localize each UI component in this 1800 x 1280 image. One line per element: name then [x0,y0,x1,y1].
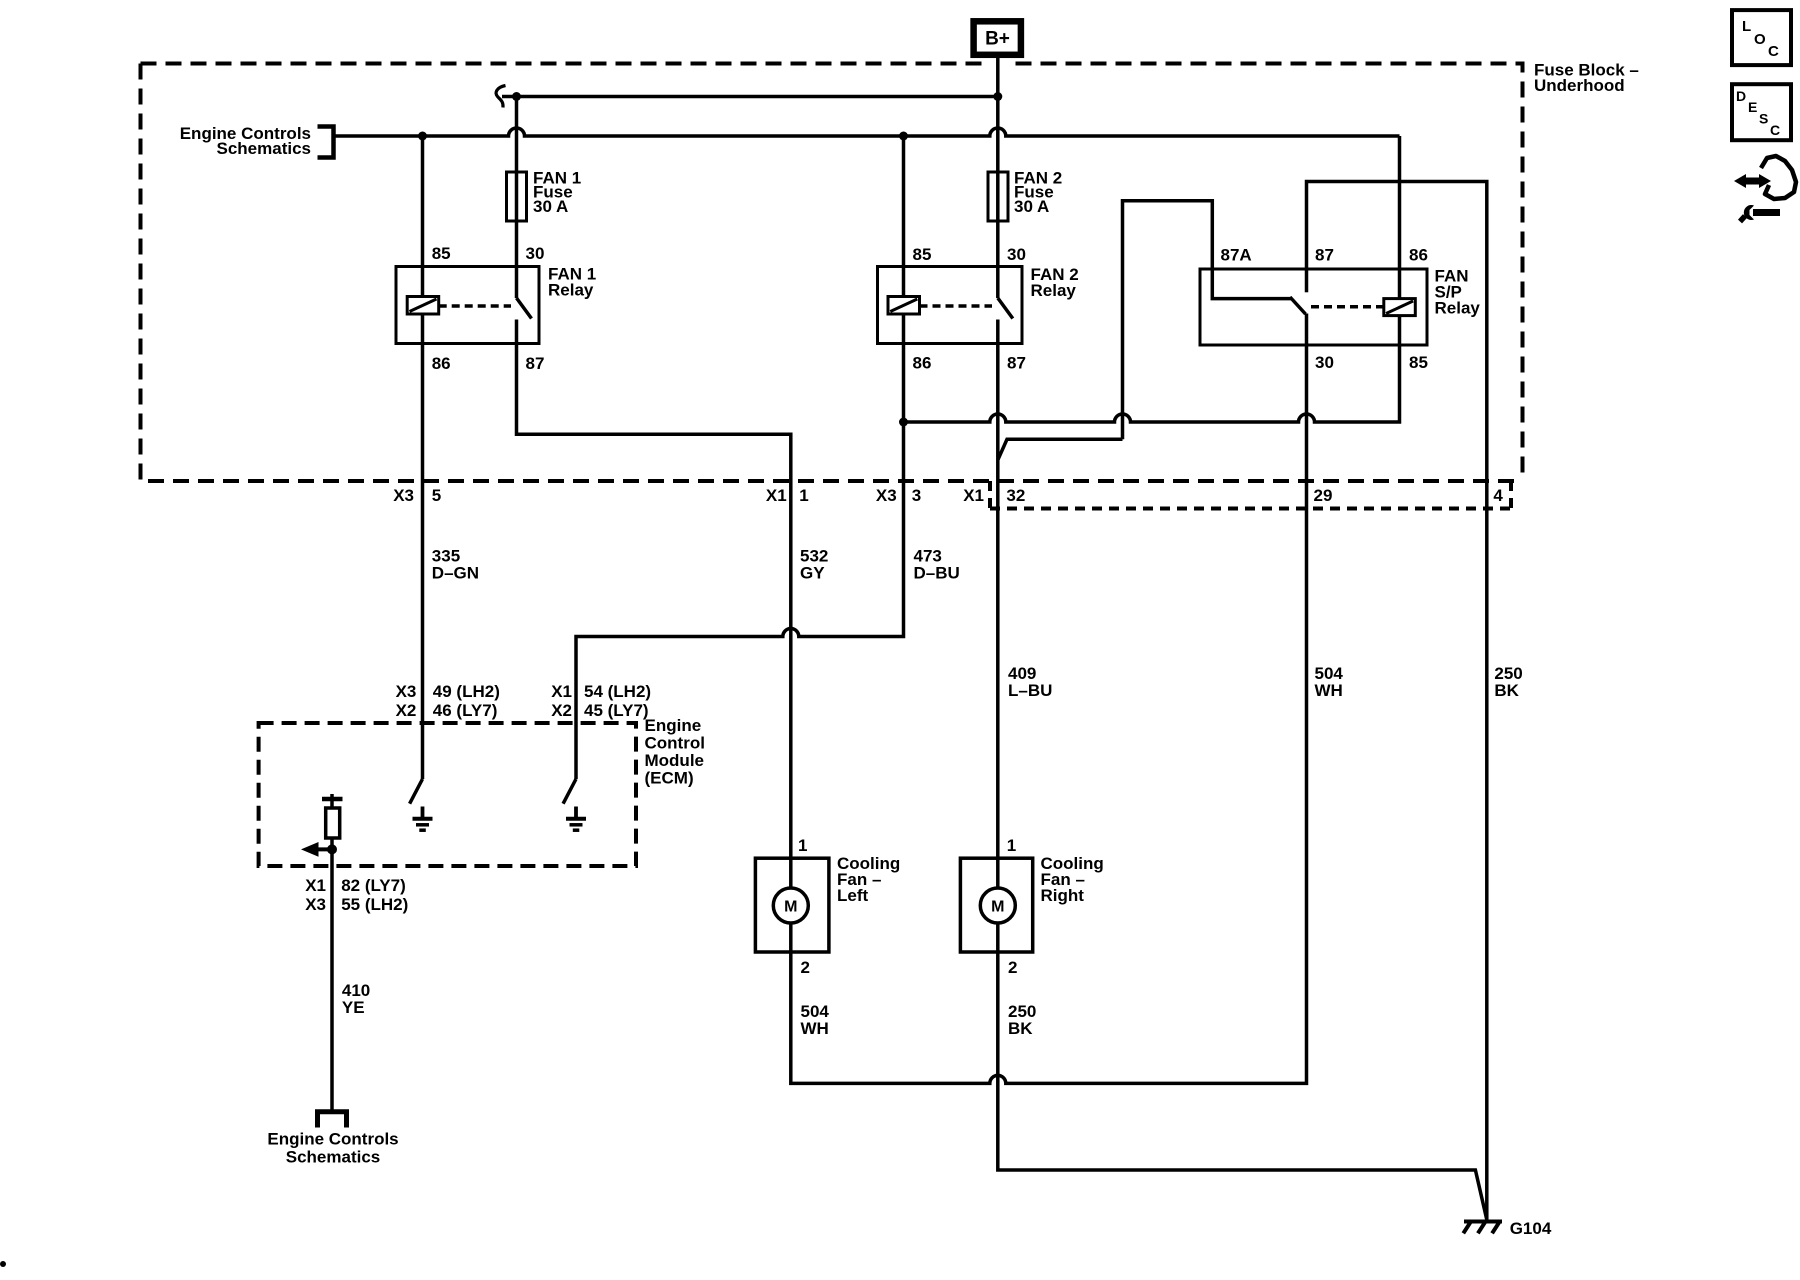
Engine Control Module dashed box [259,723,636,866]
svg-text:YE: YE [342,998,365,1017]
fuse FAN 2 30A [988,169,1062,222]
service icon: double arrow with bent arrow and wrench [1734,156,1796,222]
svg-text:Relay: Relay [548,281,594,300]
label 409 L-BU [1008,664,1052,700]
wire: FAN2 86 down (473 D-BU) to ECM link [576,344,904,780]
wire: FAN2 relay 85 drop [902,136,906,297]
svg-text:Left: Left [837,886,869,905]
label 504 WH (left fan) [801,1002,830,1038]
relay FAN 2 [878,245,1079,373]
label 335 D-GN [432,547,479,583]
svg-text:Module: Module [645,751,705,770]
label 532 GY [800,547,828,583]
svg-text:M: M [784,899,797,916]
svg-text:Engine Controls: Engine Controls [267,1130,398,1149]
svg-text:Relay: Relay [1031,281,1077,300]
relay FAN S/P [1200,246,1480,373]
wire: FAN1 relay 85 drop [421,136,425,297]
ECM switch 2 [563,779,576,804]
node: FAN2 relay 85 tap [899,132,908,141]
wire: fuse2 to FAN2 relay pin 30 [996,221,1000,267]
LOC icon [1732,10,1791,65]
svg-text:29: 29 [1314,486,1333,505]
svg-text:D–GN: D–GN [432,564,479,583]
svg-text:86: 86 [432,354,451,373]
label X3 3 [876,486,921,505]
svg-text:Schematics: Schematics [217,139,312,158]
label 473 D-BU [914,547,960,583]
relay FAN 1 [396,244,596,373]
svg-text:B+: B+ [985,29,1010,50]
signal arrow to Engine Controls Schematics [301,842,337,857]
label X3 5 [393,486,441,505]
wire: FAN1 87 to X1-1 [517,344,791,859]
svg-text:30 A: 30 A [1014,197,1049,216]
wire: right fan return 250 BK to ground [998,952,1487,1220]
svg-text:X3: X3 [396,682,417,701]
svg-text:M: M [991,899,1004,916]
svg-text:85: 85 [432,244,451,263]
ECM pin labels X1 54 / X2 45 [551,682,651,720]
svg-text:87: 87 [1315,246,1334,265]
svg-text:X1: X1 [305,876,326,895]
svg-text:49 (LH2): 49 (LH2) [433,682,500,701]
label X1 82 / X3 55 [305,876,408,914]
svg-text:82 (LY7): 82 (LY7) [341,876,406,895]
svg-text:X3: X3 [393,486,414,505]
label 504 WH [1315,664,1344,700]
node: junction B+ link / fuse 1 drop [512,92,521,101]
svg-text:30: 30 [526,244,545,263]
svg-text:D: D [1736,88,1746,104]
svg-text:C: C [1768,43,1779,60]
ECM internal sensing element [322,794,343,838]
wire: fuse1 drop from B+ link [515,97,519,173]
bracket (top left) [318,127,334,158]
svg-text:O: O [1754,31,1766,48]
X1 connector dashed band [990,481,1511,509]
label Fuse Block - Underhood [1534,61,1639,96]
label 250 BK [1494,664,1522,700]
cooling fan right motor [960,836,1103,977]
svg-text:Schematics: Schematics [286,1148,381,1167]
wire: Engine Controls Schematics horizontal with hops [334,128,1400,136]
wire: 87A link horizontal with jog [998,439,1123,459]
wire: B+ vertical to FAN 2 fuse [996,58,1000,172]
wire: S/P 87A loop to link [1123,201,1213,440]
svg-text:D–BU: D–BU [914,564,960,583]
svg-text:Engine: Engine [645,716,702,735]
svg-text:C: C [1770,122,1780,138]
label 250 BK (right fan) [1008,1002,1036,1038]
ground G104 [1463,1219,1552,1238]
svg-text:46 (LY7): 46 (LY7) [433,701,498,720]
label Engine Controls Schematics (bottom) [267,1130,398,1167]
wire: FAN1 86 to ECM (335 D-GN) [421,344,425,780]
svg-text:5: 5 [432,486,441,505]
cooling fan left motor [755,836,900,977]
svg-text:86: 86 [1409,246,1428,265]
wire: ECM output 410 YE [330,838,334,1110]
wire: S/P 85 to FAN2 86 link with hops [904,345,1400,422]
node: FAN1 relay 85 tap [418,132,427,141]
svg-text:2: 2 [801,958,810,977]
svg-text:X1: X1 [551,682,572,701]
svg-text:85: 85 [913,245,932,264]
B+ battery feed box [974,21,1021,55]
svg-text:BK: BK [1494,681,1519,700]
svg-text:32: 32 [1006,486,1025,505]
svg-text:BK: BK [1008,1019,1033,1038]
svg-text:1: 1 [799,486,808,505]
Engine Controls Schematics label (top left) [180,124,311,158]
svg-text:Underhood: Underhood [1534,76,1625,95]
svg-text:4: 4 [1493,486,1503,505]
svg-text:X2: X2 [551,701,572,720]
stray mark bottom left [0,1261,6,1267]
node: junction FAN2 86 / S-P 85 [899,418,908,427]
svg-text:87: 87 [1007,354,1026,373]
wire: S/P 30 down (504 WH) [791,345,1307,1083]
wire: B+ top link horizontal [502,95,998,99]
ground (ECM driver 1) [413,807,433,831]
svg-text:GY: GY [800,564,825,583]
svg-text:Right: Right [1041,886,1085,905]
svg-text:X3: X3 [305,895,326,914]
DESC icon [1732,84,1791,140]
svg-text:Control: Control [645,734,705,753]
ground (ECM driver 2) [566,807,586,831]
svg-text:87A: 87A [1221,246,1252,265]
svg-text:G104: G104 [1510,1219,1552,1238]
label X1 1 [766,486,809,505]
coil curl at wire end [496,86,505,108]
svg-text:(ECM): (ECM) [645,769,694,788]
svg-text:30 A: 30 A [533,197,568,216]
svg-text:85: 85 [1409,353,1428,372]
node: junction B+ vertical [993,92,1002,101]
label X1 32 [963,486,1025,505]
svg-text:1: 1 [1007,836,1016,855]
ECM pin labels X3 49 / X2 46 [396,682,500,720]
label Engine Control Module (ECM) [645,716,705,788]
svg-text:E: E [1748,99,1757,115]
wire: S/P 86 drop from schematics wire [1398,136,1402,269]
svg-text:Relay: Relay [1435,299,1481,318]
svg-text:L–BU: L–BU [1008,681,1052,700]
wire: FAN2 87 down (409 L-BU) to right fan [996,344,1000,859]
wire: S/P 87 loop to 250 BK [1307,182,1487,1220]
ECM switch 1 [410,779,423,804]
svg-text:S: S [1759,111,1768,127]
Fuse Block - Underhood dashed box [141,64,1523,482]
svg-text:55 (LH2): 55 (LH2) [341,895,408,914]
svg-text:2: 2 [1008,958,1017,977]
svg-text:X1: X1 [963,486,984,505]
svg-text:X3: X3 [876,486,897,505]
svg-text:30: 30 [1007,245,1026,264]
svg-text:WH: WH [1315,681,1343,700]
svg-text:3: 3 [912,486,921,505]
svg-text:X2: X2 [396,701,417,720]
fuse FAN 1 30A [507,169,582,222]
svg-text:L: L [1742,18,1751,35]
svg-text:45 (LY7): 45 (LY7) [584,701,649,720]
label 410 YE [342,981,370,1017]
svg-text:1: 1 [798,836,807,855]
svg-text:30: 30 [1315,353,1334,372]
svg-text:WH: WH [801,1019,829,1038]
svg-text:X1: X1 [766,486,787,505]
svg-text:86: 86 [913,354,932,373]
wire: fuse1 to FAN1 relay pin 30 [515,221,519,267]
gap in dashed border at B+ stem [987,59,1009,68]
svg-text:54 (LH2): 54 (LH2) [584,682,651,701]
bottom bracket to Engine Controls Schematics [318,1112,347,1128]
svg-text:87: 87 [526,354,545,373]
